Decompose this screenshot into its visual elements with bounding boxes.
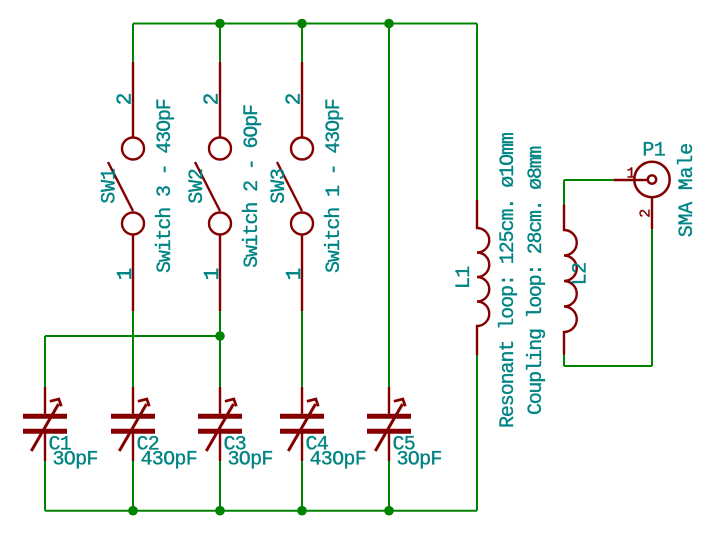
- svg-text:43OpF: 43OpF: [310, 449, 367, 472]
- svg-text:2: 2: [202, 93, 225, 106]
- svg-text:Switch 1 - 43OpF: Switch 1 - 43OpF: [323, 99, 346, 273]
- svg-text:P1: P1: [642, 140, 665, 163]
- svg-text:Switch 3 - 43OpF: Switch 3 - 43OpF: [154, 99, 177, 273]
- svg-text:2: 2: [284, 93, 307, 106]
- svg-text:1: 1: [626, 166, 635, 183]
- svg-text:L1: L1: [453, 266, 476, 289]
- svg-text:Switch 2 - 6OpF: Switch 2 - 6OpF: [241, 105, 264, 268]
- svg-text:SW2: SW2: [186, 168, 209, 203]
- svg-text:3OpF: 3OpF: [228, 449, 273, 472]
- svg-text:2: 2: [115, 93, 138, 106]
- svg-text:1: 1: [202, 268, 225, 281]
- svg-text:3OpF: 3OpF: [397, 449, 442, 472]
- svg-text:1: 1: [284, 268, 307, 281]
- svg-text:SW1: SW1: [99, 168, 122, 204]
- svg-text:Resonant loop: 125cm. ø1Omm: Resonant loop: 125cm. ø1Omm: [497, 133, 520, 428]
- svg-text:3OpF: 3OpF: [53, 449, 98, 472]
- svg-text:1: 1: [115, 268, 138, 281]
- svg-text:43OpF: 43OpF: [141, 449, 198, 472]
- svg-text:L2: L2: [569, 263, 592, 286]
- svg-text:Coupling loop: 28cm. ø8mm: Coupling loop: 28cm. ø8mm: [525, 147, 548, 415]
- svg-text:SW3: SW3: [268, 168, 291, 203]
- svg-text:SMA Male: SMA Male: [676, 143, 699, 237]
- svg-text:2: 2: [637, 209, 654, 218]
